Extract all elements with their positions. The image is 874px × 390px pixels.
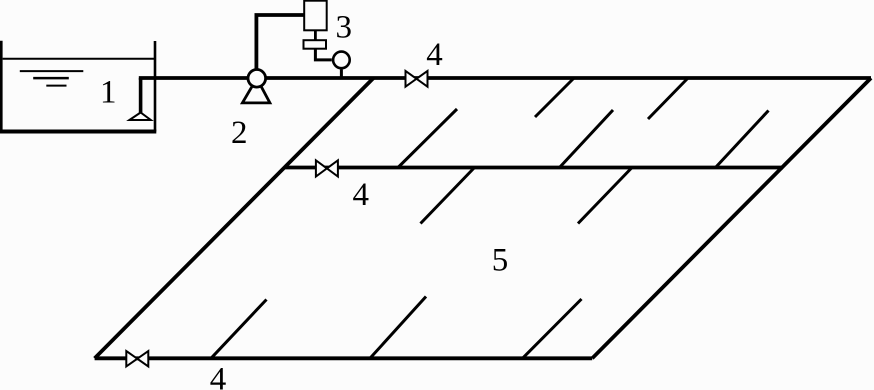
svg-text:1: 1: [100, 75, 117, 111]
svg-text:4: 4: [426, 37, 443, 73]
svg-text:4: 4: [210, 362, 227, 390]
svg-text:2: 2: [231, 115, 248, 151]
svg-text:4: 4: [353, 177, 370, 213]
svg-text:3: 3: [336, 9, 353, 45]
svg-text:5: 5: [492, 243, 509, 279]
